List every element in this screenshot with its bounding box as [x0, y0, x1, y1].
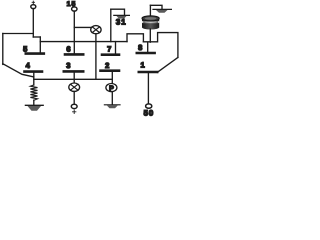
capacitor can: [142, 16, 160, 30]
svg-text:0: 0: [149, 109, 154, 118]
wire pin1 drop: [147, 73, 149, 104]
wire cylinder top: [149, 5, 151, 16]
pin bar 7: [102, 53, 119, 56]
wire right output loop: [143, 33, 178, 58]
wire from + terminal down: [32, 9, 34, 37]
pin bar 1: [139, 71, 157, 74]
label 7: [107, 45, 111, 54]
wire pin4 drop to resistor: [33, 73, 35, 85]
svg-text:6: 6: [66, 45, 70, 54]
label 3: [66, 61, 70, 70]
svg-text:7: 7: [107, 45, 111, 54]
label 6: [66, 45, 70, 54]
svg-text:3: 3: [66, 61, 70, 70]
label 2: [105, 61, 109, 70]
wire bump over to pin8: [127, 34, 143, 42]
wire meter P to ground: [111, 92, 113, 105]
ground 31: [114, 15, 130, 18]
label 5: [23, 45, 27, 54]
wire pin3 drop: [73, 73, 75, 83]
wire bottom bus: [34, 78, 113, 80]
lamp L1: [91, 26, 101, 34]
svg-text:1: 1: [67, 1, 71, 8]
ground top-right: [153, 9, 171, 12]
wire lamp L2 to terminal: [73, 92, 75, 105]
pin bar 5: [26, 52, 44, 55]
svg-text:2: 2: [105, 61, 109, 70]
meter P: [106, 84, 117, 93]
label 8: [138, 43, 142, 52]
wire diagonal to pin1: [157, 58, 178, 73]
wire cylinder bottom to pin8: [149, 29, 151, 42]
wire pin2 drop: [111, 72, 113, 84]
wire left border horizontal: [3, 33, 34, 35]
pin bar 4: [25, 70, 43, 73]
wire step right to pin5 drop: [33, 36, 40, 38]
resistor R (zigzag): [30, 85, 37, 100]
pin bar 2: [101, 69, 120, 72]
svg-text:3: 3: [116, 18, 121, 27]
terminal 15: [67, 1, 77, 11]
terminal + (bottom): [71, 104, 77, 113]
svg-text:4: 4: [26, 61, 31, 70]
terminal + (top): [31, 1, 36, 9]
wire resistor to ground: [33, 100, 35, 105]
pin bar 3: [64, 70, 83, 73]
svg-text:1: 1: [121, 18, 126, 27]
terminal 50: [144, 104, 154, 118]
wire 15 terminal down to pin6: [73, 11, 75, 54]
svg-text:5: 5: [23, 45, 27, 54]
svg-text:8: 8: [138, 43, 142, 52]
pin bar 6: [65, 53, 83, 56]
wire long horizontal bus: [40, 41, 127, 43]
label 31: [116, 18, 126, 27]
wire ground-31 bracket: [111, 9, 125, 15]
pin bar 8: [137, 52, 155, 55]
ground bottom-middle: [104, 105, 120, 109]
svg-text:1: 1: [141, 61, 145, 70]
wire top-right ground bracket: [150, 5, 162, 9]
wire pin5 drop: [39, 37, 41, 53]
lamp L2: [69, 83, 80, 91]
ground bottom-left: [25, 105, 43, 111]
wire left border vertical: [2, 34, 4, 65]
label 1: [141, 61, 145, 70]
wire branch to lamp L1: [74, 26, 91, 28]
svg-text:P: P: [109, 85, 114, 92]
label 4: [26, 61, 31, 70]
wire diagonal to pin4: [3, 64, 34, 77]
wire lamp L1 down to bus: [95, 34, 97, 80]
wire ground-31 drop: [110, 9, 112, 41]
wire pin7 drop: [115, 42, 117, 54]
